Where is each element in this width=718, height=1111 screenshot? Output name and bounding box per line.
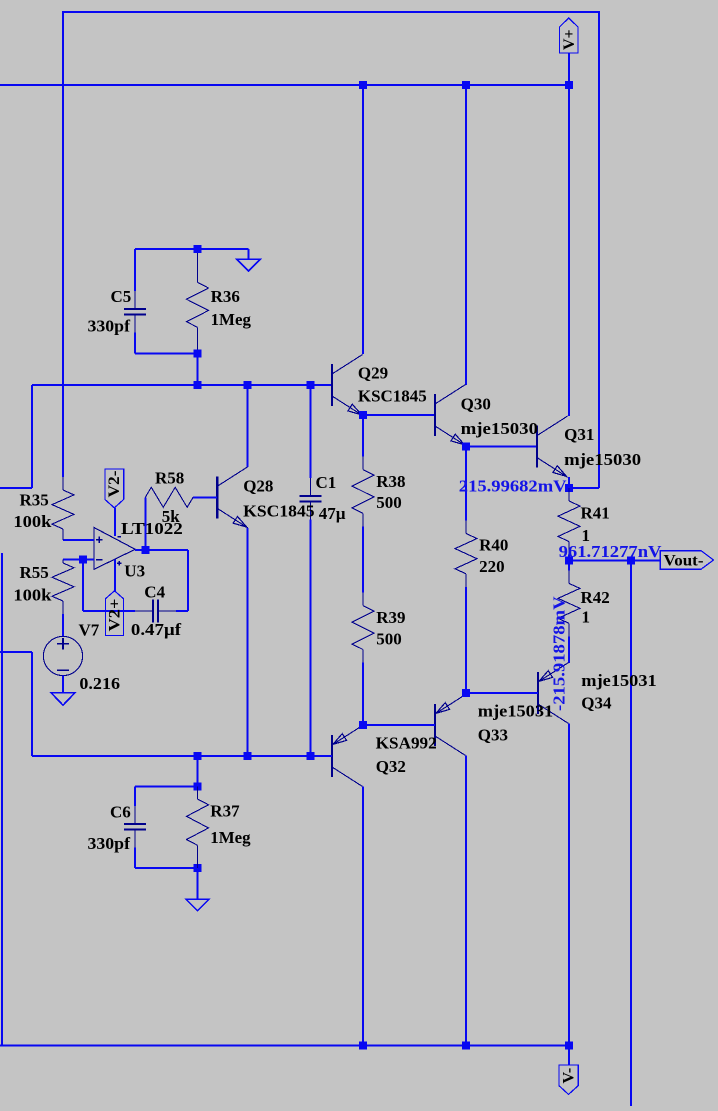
- svg-text:Vout-: Vout-: [664, 553, 704, 570]
- svg-text:R41: R41: [581, 504, 610, 523]
- svg-text:Q30: Q30: [461, 394, 491, 413]
- svg-text:220: 220: [479, 557, 505, 576]
- svg-text:Q34: Q34: [581, 693, 612, 712]
- svg-text:mje15031: mje15031: [478, 702, 553, 721]
- svg-text:R37: R37: [210, 802, 240, 821]
- svg-text:C6: C6: [110, 803, 131, 822]
- svg-text:C1: C1: [316, 473, 337, 492]
- svg-text:KSA992: KSA992: [376, 734, 437, 753]
- svg-text:47µ: 47µ: [319, 504, 346, 523]
- svg-text:1Meg: 1Meg: [210, 828, 251, 847]
- svg-text:mje15031: mje15031: [581, 671, 656, 690]
- svg-text:100k: 100k: [13, 512, 52, 531]
- svg-text:215.99682mV: 215.99682mV: [459, 477, 568, 496]
- svg-text:5k: 5k: [162, 507, 181, 526]
- svg-text:961.71277nV: 961.71277nV: [559, 542, 663, 561]
- svg-text:mje15030: mje15030: [461, 419, 538, 438]
- svg-text:0.216: 0.216: [79, 674, 120, 693]
- svg-text:330pf: 330pf: [88, 316, 131, 335]
- svg-text:-215.91878mV: -215.91878mV: [550, 596, 569, 711]
- svg-text:0.47µf: 0.47µf: [131, 620, 182, 639]
- svg-text:R38: R38: [376, 472, 405, 491]
- svg-text:C4: C4: [144, 582, 165, 601]
- svg-text:V+: V+: [561, 29, 578, 50]
- svg-text:mje15030: mje15030: [564, 450, 641, 469]
- svg-text:500: 500: [376, 493, 402, 512]
- svg-text:V2-: V2-: [106, 471, 123, 498]
- svg-text:C5: C5: [111, 287, 132, 306]
- svg-text:KSC1845: KSC1845: [243, 502, 314, 521]
- svg-text:R36: R36: [211, 287, 240, 306]
- svg-text:500: 500: [376, 629, 402, 648]
- svg-text:330pf: 330pf: [88, 834, 131, 853]
- svg-text:R42: R42: [581, 588, 610, 607]
- svg-text:R58: R58: [155, 469, 184, 488]
- svg-text:U3: U3: [124, 561, 145, 580]
- svg-text:100k: 100k: [13, 585, 52, 604]
- svg-text:Q32: Q32: [376, 757, 406, 776]
- svg-text:Q33: Q33: [478, 725, 508, 744]
- svg-text:R40: R40: [479, 536, 508, 555]
- svg-text:V2+: V2+: [106, 599, 123, 632]
- svg-text:R55: R55: [20, 563, 49, 582]
- svg-text:Q29: Q29: [358, 364, 388, 383]
- svg-text:1: 1: [582, 608, 591, 627]
- svg-text:R39: R39: [376, 608, 405, 627]
- svg-text:R35: R35: [20, 491, 49, 510]
- svg-text:KSC1845: KSC1845: [358, 386, 427, 405]
- svg-text:1Meg: 1Meg: [211, 310, 252, 329]
- svg-text:V-: V-: [561, 1068, 578, 1084]
- svg-text:Q28: Q28: [243, 476, 273, 495]
- svg-text:V7: V7: [79, 621, 100, 640]
- svg-text:Q31: Q31: [564, 425, 594, 444]
